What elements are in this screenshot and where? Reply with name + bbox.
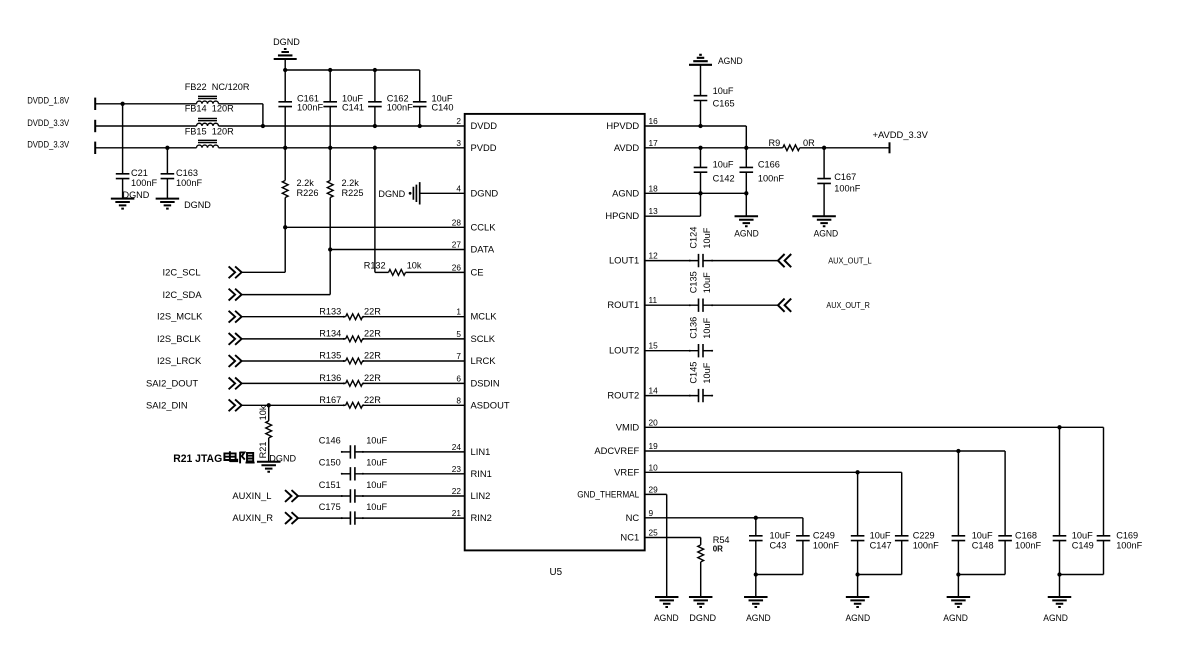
wire DATA	[330, 249, 465, 251]
ground AGND	[947, 597, 971, 607]
wire PVDD rail to pin 3	[219, 147, 465, 149]
wire	[242, 271, 286, 273]
note hanzi dian	[224, 451, 237, 462]
wire	[957, 451, 959, 536]
wire	[700, 538, 702, 545]
wire	[363, 338, 465, 340]
svg-text:MCLK: MCLK	[471, 311, 498, 322]
C145 terminal dots	[689, 395, 713, 397]
label DGND	[269, 454, 296, 464]
resistor R136	[346, 381, 363, 387]
node junction	[754, 572, 758, 576]
resistor R134	[346, 336, 363, 342]
svg-text:10uF: 10uF	[366, 502, 387, 512]
svg-text:C43: C43	[770, 540, 787, 550]
wire	[284, 198, 286, 228]
label C21	[131, 168, 148, 178]
wire	[363, 382, 465, 384]
pin 1 MCLK	[456, 307, 497, 322]
node junction	[328, 247, 332, 251]
svg-text:10uF: 10uF	[366, 436, 387, 446]
wire	[355, 473, 465, 475]
svg-text:FB14 120R: FB14 120R	[185, 104, 234, 114]
wire	[703, 350, 712, 352]
net label I2S_BCLK	[157, 333, 202, 344]
svg-text:R9: R9	[769, 138, 781, 148]
node junction	[373, 68, 377, 72]
svg-text:GND_THERMAL: GND_THERMAL	[577, 488, 639, 499]
wire	[823, 183, 825, 216]
net label AUX_OUT_L	[828, 257, 872, 266]
C151 terminal dots	[341, 495, 364, 497]
wire	[262, 104, 264, 126]
svg-text:25: 25	[649, 528, 659, 538]
wire	[1004, 451, 1006, 536]
ferrite bead FB14	[197, 119, 219, 127]
wire	[329, 70, 331, 102]
capacitor C166	[740, 167, 754, 172]
ground AGND inverted	[689, 55, 712, 65]
label 10uF	[770, 530, 791, 540]
capacitor C142	[694, 167, 708, 172]
label 10uF	[713, 159, 734, 169]
wire	[166, 148, 168, 174]
node junction	[754, 516, 758, 520]
node junction	[328, 146, 332, 150]
label 10uF	[702, 362, 712, 383]
label R136	[319, 373, 341, 383]
net label AUX_OUT_R	[826, 301, 870, 310]
label C147	[870, 540, 892, 550]
label 100nF	[1116, 540, 1142, 550]
label AGND	[1043, 613, 1068, 623]
ground AGND	[812, 216, 836, 226]
capacitor C229	[895, 536, 909, 541]
label C150	[319, 458, 341, 468]
wire	[958, 574, 1005, 576]
capacitor C135	[699, 299, 704, 312]
svg-text:20: 20	[649, 417, 659, 427]
svg-text:U5: U5	[550, 567, 563, 578]
pin 29 GND_THERMAL	[577, 484, 658, 499]
svg-text:AUXIN_L: AUXIN_L	[232, 490, 271, 501]
pin 2 DVDD	[456, 116, 497, 131]
label 10uF	[366, 436, 387, 446]
pin 13 HPGND	[605, 206, 658, 221]
wire	[700, 562, 702, 597]
wire DGND bus	[285, 69, 420, 71]
svg-text:0R: 0R	[803, 138, 815, 148]
net label I2S_LRCK	[157, 355, 202, 366]
pin 6 DSDIN	[456, 373, 499, 388]
wire	[95, 147, 196, 149]
node junction	[698, 191, 702, 195]
label FB22 NC/120R	[185, 82, 250, 92]
wire	[268, 405, 270, 421]
capacitor C167	[817, 179, 831, 184]
wire pin13 HPGND	[645, 215, 701, 217]
node junction	[744, 146, 748, 150]
svg-text:CE: CE	[471, 266, 484, 277]
svg-text:DSDIN: DSDIN	[471, 377, 500, 388]
net label AUXIN_R	[232, 512, 273, 523]
svg-text:100nF: 100nF	[813, 540, 839, 550]
wire	[823, 148, 825, 179]
port AUX_OUT_L	[778, 254, 791, 267]
node junction	[822, 146, 826, 150]
wire	[1059, 541, 1061, 597]
node junction	[418, 124, 422, 128]
wire	[341, 473, 350, 475]
wire	[700, 65, 702, 96]
label FB14 120R	[185, 104, 234, 114]
svg-text:I2S_BCLK: I2S_BCLK	[157, 333, 202, 344]
label 2.2k	[297, 178, 315, 188]
label DGND	[273, 37, 300, 47]
label 10k	[407, 260, 422, 270]
label C148	[972, 540, 994, 550]
wire	[341, 451, 350, 453]
label R167	[319, 395, 341, 405]
svg-text:C146: C146	[319, 436, 341, 446]
wire	[374, 107, 376, 126]
wire	[363, 404, 465, 406]
svg-text:22R: 22R	[364, 395, 381, 405]
svg-text:10k: 10k	[407, 260, 422, 270]
node junction	[267, 403, 271, 407]
label DGND	[378, 189, 405, 199]
label C43	[770, 540, 787, 550]
ground AGND	[735, 216, 759, 226]
wire pin19 ADCVREF	[645, 450, 1005, 452]
C146 terminal dots	[341, 451, 364, 453]
svg-text:10uF: 10uF	[702, 227, 712, 248]
label AGND	[846, 613, 871, 623]
wire	[284, 107, 286, 181]
wire DVDD rail to pin 2	[219, 125, 465, 127]
label 10uF	[713, 86, 734, 96]
resistor R167	[346, 402, 363, 408]
label AGND	[654, 613, 679, 623]
svg-text:2.2k: 2.2k	[342, 178, 360, 188]
label C166	[758, 159, 780, 169]
svg-text:RIN2: RIN2	[471, 512, 492, 523]
R134 terminal dots	[343, 338, 364, 340]
svg-text:C147: C147	[870, 540, 892, 550]
port DVDD_3.3V	[94, 142, 96, 154]
label C161	[297, 94, 319, 104]
pin 23 RIN1	[452, 464, 492, 479]
svg-text:10uF: 10uF	[702, 317, 712, 338]
ground DGND	[689, 597, 713, 607]
svg-text:C163: C163	[176, 168, 198, 178]
label 100nF	[297, 103, 323, 113]
svg-text:11: 11	[649, 295, 658, 305]
svg-text:7: 7	[456, 351, 461, 361]
svg-text:AUX_OUT_L: AUX_OUT_L	[828, 257, 872, 266]
svg-text:C21: C21	[131, 168, 148, 178]
svg-text:C148: C148	[972, 540, 994, 550]
wire	[1060, 574, 1104, 576]
svg-text:10uF: 10uF	[702, 362, 712, 383]
wire	[219, 103, 263, 105]
svg-text:100nF: 100nF	[758, 173, 784, 183]
ferrite bead FB22	[197, 96, 219, 104]
ground DGND inverted	[274, 49, 297, 59]
svg-text:I2S_MCLK: I2S_MCLK	[157, 311, 203, 322]
svg-text:C141: C141	[342, 103, 364, 113]
R136 terminal dots	[343, 382, 364, 384]
node junction	[261, 124, 265, 128]
capacitor C168	[998, 536, 1012, 541]
wire	[284, 227, 286, 272]
wire	[363, 360, 465, 362]
label 10uF	[366, 458, 387, 468]
net label SAI2_DIN	[146, 399, 188, 410]
svg-text:2.2k: 2.2k	[297, 178, 315, 188]
svg-text:22: 22	[452, 486, 462, 496]
pin 28 CCLK	[452, 217, 496, 232]
svg-text:LOUT1: LOUT1	[609, 255, 639, 266]
svg-text:NC1: NC1	[620, 532, 639, 543]
resistor R225	[327, 181, 333, 198]
capacitor C169	[1097, 536, 1111, 541]
capacitor C165	[694, 96, 708, 101]
wire	[329, 107, 331, 181]
svg-text:R167: R167	[319, 395, 341, 405]
node junction	[744, 191, 748, 195]
wire	[298, 495, 351, 497]
pin 26 CE	[452, 262, 484, 277]
svg-text:DATA: DATA	[471, 244, 495, 255]
label U5	[550, 567, 563, 578]
pin 17 AVDD	[614, 138, 658, 153]
pin 22 LIN2	[452, 486, 491, 501]
label 100nF	[387, 103, 413, 113]
capacitor C162	[368, 102, 382, 107]
svg-text:R135: R135	[319, 351, 341, 361]
label FB15 120R	[185, 127, 234, 137]
resistor R133	[346, 314, 363, 320]
wire	[1103, 541, 1105, 575]
svg-text:DGND: DGND	[123, 190, 150, 200]
svg-text:I2C_SCL: I2C_SCL	[163, 267, 201, 278]
svg-text:DGND: DGND	[689, 613, 716, 623]
node junction	[956, 449, 960, 453]
svg-text:10uF: 10uF	[870, 530, 891, 540]
label C136	[689, 317, 699, 339]
wire	[122, 179, 124, 199]
port DVDD_1.8V	[94, 98, 96, 110]
pin 18 AGND	[612, 183, 658, 198]
svg-text:10uF: 10uF	[713, 159, 734, 169]
label C146	[319, 436, 341, 446]
svg-text:5: 5	[456, 329, 461, 339]
svg-text:SCLK: SCLK	[471, 333, 496, 344]
capacitor C136	[699, 344, 704, 357]
label 10uF	[1072, 530, 1093, 540]
wire	[166, 179, 168, 199]
svg-text:AGND: AGND	[718, 56, 743, 66]
node junction	[956, 572, 960, 576]
node junction	[165, 146, 169, 150]
svg-text:22R: 22R	[364, 329, 381, 339]
wire	[1059, 427, 1061, 536]
svg-text:9: 9	[649, 508, 654, 518]
pin 27 DATA	[452, 240, 495, 255]
svg-text:13: 13	[649, 206, 659, 216]
svg-text:R133: R133	[319, 306, 341, 316]
wire	[95, 103, 196, 105]
svg-text:C166: C166	[758, 159, 780, 169]
node junction	[328, 68, 332, 72]
svg-text:C136: C136	[689, 317, 699, 339]
svg-text:27: 27	[452, 240, 462, 250]
wire	[419, 70, 421, 102]
wire	[284, 70, 286, 102]
node junction	[283, 225, 287, 229]
svg-text:AGND: AGND	[654, 613, 679, 623]
svg-text:+AVDD_3.3V: +AVDD_3.3V	[873, 129, 929, 140]
svg-text:C145: C145	[689, 362, 699, 384]
node junction	[698, 146, 702, 150]
wire	[755, 518, 757, 536]
label R132	[364, 261, 386, 271]
port AUXIN_R	[285, 512, 298, 524]
label C141	[342, 103, 364, 113]
label C149	[1072, 540, 1094, 550]
port AUX_OUT_R	[778, 299, 791, 312]
label C140	[432, 103, 454, 113]
wire	[700, 193, 702, 216]
wire	[355, 495, 465, 497]
label 0R	[713, 545, 723, 554]
svg-text:10uF: 10uF	[713, 86, 734, 96]
label 22R	[364, 329, 381, 339]
port I2S_MCLK	[229, 311, 242, 323]
svg-text:C229: C229	[913, 530, 935, 540]
wire pin18 AGND	[645, 192, 747, 194]
C124 terminal dots	[689, 260, 713, 262]
svg-text:8: 8	[456, 395, 461, 405]
svg-text:DVDD_3.3V: DVDD_3.3V	[27, 117, 70, 128]
svg-text:12: 12	[649, 251, 659, 261]
resistor R135	[346, 358, 363, 364]
svg-text:ROUT1: ROUT1	[607, 299, 639, 310]
svg-text:10uF: 10uF	[770, 530, 791, 540]
wire	[700, 101, 702, 127]
wire	[242, 360, 346, 362]
wire	[375, 271, 389, 273]
node junction	[373, 146, 377, 150]
capacitor C149	[1053, 536, 1067, 541]
wire	[802, 518, 804, 536]
wire	[700, 172, 702, 193]
svg-text:DGND: DGND	[471, 187, 499, 198]
wire	[1004, 541, 1006, 575]
svg-text:ROUT2: ROUT2	[607, 390, 639, 401]
label DGND	[689, 613, 716, 623]
label 10uF	[342, 94, 363, 104]
svg-text:DVDD: DVDD	[471, 120, 498, 131]
wire	[374, 148, 376, 273]
svg-text:DGND: DGND	[273, 37, 300, 47]
svg-text:10uF: 10uF	[972, 530, 993, 540]
wire pin10 VREF	[645, 471, 902, 473]
svg-text:3: 3	[456, 138, 461, 148]
svg-text:HPVDD: HPVDD	[606, 120, 639, 131]
pin 19 ADCVREF	[594, 441, 658, 456]
svg-text:SAI2_DOUT: SAI2_DOUT	[146, 377, 198, 388]
label R54	[713, 535, 730, 545]
label 10uF	[432, 94, 453, 104]
wire	[329, 250, 331, 295]
label 10k	[258, 405, 268, 420]
net label SAI2_DOUT	[146, 377, 198, 388]
label C169	[1116, 530, 1138, 540]
label 100nF	[1015, 540, 1041, 550]
label 100nF	[131, 178, 157, 188]
svg-text:FB22 NC/120R: FB22 NC/120R	[185, 82, 250, 92]
label 10uF	[366, 480, 387, 490]
pin 3 PVDD	[456, 138, 496, 153]
net label I2S_MCLK	[157, 311, 203, 322]
svg-text:24: 24	[452, 442, 462, 452]
pin 16 HPVDD	[606, 116, 658, 131]
svg-text:10uF: 10uF	[702, 272, 712, 293]
port SAI2_DIN	[229, 399, 242, 411]
svg-text:C165: C165	[713, 99, 735, 109]
label 22R	[364, 395, 381, 405]
svg-text:0R: 0R	[713, 545, 723, 554]
port I2S_LRCK	[229, 355, 242, 367]
label AGND	[814, 228, 839, 238]
label R134	[319, 329, 341, 339]
label DGND	[123, 190, 150, 200]
svg-text:DVDD_3.3V: DVDD_3.3V	[27, 139, 70, 150]
svg-text:LIN1: LIN1	[471, 446, 491, 457]
svg-text:AGND: AGND	[734, 228, 759, 238]
label AGND	[734, 228, 759, 238]
svg-text:100nF: 100nF	[913, 540, 939, 550]
svg-text:C149: C149	[1072, 540, 1094, 550]
label C124	[689, 227, 699, 249]
wire	[901, 541, 903, 575]
svg-text:100nF: 100nF	[1015, 540, 1041, 550]
pin 15 LOUT2	[609, 341, 658, 356]
svg-text:1: 1	[456, 307, 461, 317]
label C175	[319, 502, 341, 512]
wire	[95, 125, 196, 127]
wire	[745, 172, 747, 216]
wire pin16 HPVDD	[645, 125, 747, 127]
wire	[858, 574, 902, 576]
label 0R	[803, 138, 815, 148]
svg-text:LOUT2: LOUT2	[609, 345, 639, 356]
pin 25 NC1	[620, 528, 658, 543]
label R9	[769, 138, 781, 148]
wire	[242, 382, 346, 384]
svg-text:C140: C140	[432, 103, 454, 113]
wire	[298, 517, 351, 519]
label 10uF	[702, 272, 712, 293]
label C145	[689, 362, 699, 384]
pin 14 ROUT2	[607, 386, 658, 401]
ground AGND	[655, 597, 679, 607]
ground DGND	[111, 199, 135, 209]
svg-text:C169: C169	[1116, 530, 1138, 540]
capacitor C124	[699, 254, 704, 267]
